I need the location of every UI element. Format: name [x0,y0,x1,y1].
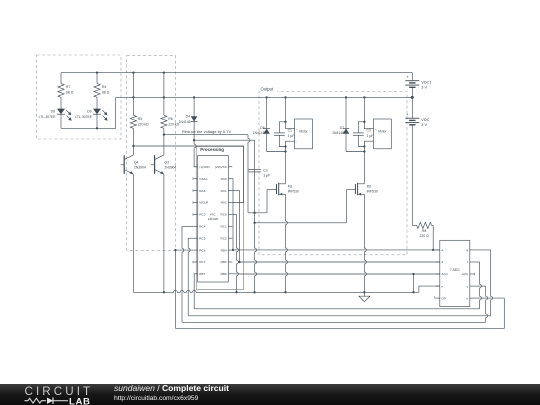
LED D9 [93,109,101,115]
pin tick: 7seg DP [434,296,436,298]
wire: VDC1 to junction [411,87,413,97]
wire: loop f (RB7 to pin f) [194,308,479,310]
svg-text:M2: M2 [367,184,372,188]
svg-text:A(C): A(C) [462,272,468,276]
junction: motor1 bottom node [284,145,286,147]
battery VDC (3V) [405,117,419,119]
diode D7 (1N4148) [345,97,347,128]
svg-text:RB4: RB4 [221,248,227,252]
annotation box: sensor group (dashed) [127,55,176,250]
wire: M2 source to ground rail [364,194,366,292]
svg-text:e: e [441,284,443,288]
wire: RC0 south to ground [232,213,236,215]
wire: loop b (RC6 to pin b) [175,298,504,328]
wire: rail1 to R5 [132,73,134,116]
display DS1 (7-SEG) [440,240,470,306]
svg-text:C2: C2 [367,128,371,132]
wire: LED box riser [115,97,117,128]
svg-text:C3: C3 [263,168,267,172]
junction: rail1/R5 [132,71,134,73]
motor MOT1 [295,119,313,149]
svg-text:IRF530: IRF530 [288,190,299,194]
svg-text:D7: D7 [340,126,344,130]
wire: motor1 bottom pin [286,141,295,146]
wire: motor1 feed [285,97,287,128]
pin tick: MCLR [192,201,194,203]
svg-text:RB5: RB5 [221,260,227,264]
wire h3: R5 node to RA2 [133,145,243,147]
svg-text:RA2: RA2 [221,201,227,205]
svg-text:+: + [296,128,298,131]
svg-text:C1: C1 [288,128,292,132]
svg-text:RA4: RA4 [199,189,205,193]
wire: RB7 loop west [193,274,196,309]
junction: battery mid node [411,96,414,99]
svg-text:Q3: Q3 [164,160,169,164]
svg-text:D9: D9 [87,109,91,113]
svg-text:PIC: PIC [210,213,216,217]
svg-text:RB6: RB6 [221,272,227,276]
svg-text:+: + [406,112,409,117]
capacitor C3 [248,169,261,171]
capacitor C2 [358,122,364,133]
svg-text:+: + [375,128,377,131]
wire: ground rail [134,290,419,292]
svg-text:R5: R5 [138,117,142,121]
resistor R6 [161,115,167,128]
svg-text:c: c [467,284,469,288]
svg-text:3 V: 3 V [421,123,427,127]
resistor R7 [60,73,62,84]
svg-text:16F690: 16F690 [208,217,219,221]
wire: R8 to display [432,225,434,250]
wire: LED bottom [61,127,116,129]
svg-text:220 kΩ: 220 kΩ [138,122,149,126]
junction: wireB/M1 gate link [253,212,255,214]
svg-text:RA1: RA1 [221,189,227,193]
junction: RA0/segment-a rail [232,249,234,251]
svg-text:RC4: RC4 [199,225,205,229]
svg-text:RC7: RC7 [199,260,205,264]
pin tick: RA4 [192,189,194,191]
junction: M1 source/ground [284,291,286,293]
wire: motor2 node to drain [363,147,365,184]
svg-text:Processing: Processing [200,147,224,152]
junction: rail2/D7 [345,96,347,98]
svg-text:1N4148: 1N4148 [253,131,265,135]
svg-text:R6: R6 [168,117,172,121]
wire: M2 gate link [255,222,347,224]
wire: junction to VDC [411,97,413,118]
svg-text:d: d [441,260,443,264]
junction: rail2/motor1 [284,96,286,98]
footer logo CIRCUIT LAB [0,384,540,405]
svg-text:Reduce the voltage by 0.7V: Reduce the voltage by 0.7V [182,129,231,134]
junction: R5 bottom node [132,145,134,147]
svg-text:D4: D4 [186,115,190,119]
wire: rail1 to VDC1 [411,73,413,81]
svg-text:68 Ω: 68 Ω [66,90,74,94]
junction: D7/motor2 drain node [363,150,365,152]
wire: rail 2 [116,96,413,98]
svg-text:-: - [375,141,376,144]
junction: anode/ground rail [412,291,414,293]
svg-text:68 Ω: 68 Ω [102,90,110,94]
svg-text:RC5: RC5 [199,236,205,240]
svg-text:f: f [467,260,468,264]
junction: R8/segment-a rail [432,249,434,251]
wire: motor1 node to drain [285,147,287,184]
wire: segment-d rail [238,261,440,263]
junction: D4 node [193,139,195,141]
junction: RC6 corner [174,249,176,251]
wire: motor2 feed [363,97,365,128]
mosfet M1 (IRF530) [278,183,280,195]
svg-text:1 μF: 1 μF [288,134,295,138]
annotation box: LED group (dashed) [37,55,122,139]
svg-text:-: - [296,141,297,144]
junction: RC0 wire/ground [235,291,237,293]
transistor Q4 (2N3904) [132,146,134,155]
junction: Q3 emitter/ground [163,291,165,293]
svg-text:VDC: VDC [421,118,429,122]
wire: RA1 south [232,191,239,262]
svg-text:M1: M1 [288,184,293,188]
svg-text:R7: R7 [66,85,70,89]
svg-text:LTL-307EE: LTL-307EE [39,115,57,119]
svg-text:b: b [466,296,468,300]
wire: M1 gate link [248,212,267,214]
svg-text:IRF530: IRF530 [367,190,378,194]
svg-text:RC3: RC3 [199,213,205,217]
ground symbol [363,292,365,296]
svg-text:(1)VDD: (1)VDD [199,165,210,169]
junction: rail2/D4 [193,96,195,98]
annotation box: Processing group [196,146,243,289]
svg-text:D8: D8 [260,126,264,130]
wire: Q4 emitter rail corner [132,291,135,293]
wire: loop g (RC5 to pin g) [188,315,491,317]
svg-text:DP: DP [441,296,445,300]
svg-text:OSC1: OSC1 [199,177,208,181]
wire: loop c (RC4 to pin c) [182,321,486,323]
junction: motor2 top node [363,121,365,123]
wire h1: R6 node to C3 (wire A) [164,134,248,136]
svg-text:A(C): A(C) [441,272,447,276]
wire h2: D4 node east (wire B) [194,139,255,141]
svg-text:a: a [441,248,443,252]
pin tick: RC3 [192,213,194,215]
svg-text:MCLR: MCLR [199,201,209,205]
svg-text:Motor: Motor [378,129,387,133]
svg-text:Motor: Motor [299,129,308,133]
junction: motor1 top node [284,121,286,123]
diode D8 (1N4148) [266,97,268,128]
wire: anode rail start [232,273,243,275]
svg-text:sundaiwen / Complete circuit: sundaiwen / Complete circuit [114,383,229,393]
battery VDC1 (3V) [405,80,419,82]
svg-text:2N3904: 2N3904 [164,165,176,169]
svg-text:1 μF: 1 μF [263,174,270,178]
junction: D8/motor1 drain node [284,150,286,152]
footer attribution text [114,383,229,402]
microcontroller U1 (PIC 16F690) [198,156,229,283]
junction: rail2/motor2 [363,96,365,98]
junction: wireB/M2 gate link [253,222,255,224]
motor MOT2 [374,119,392,149]
svg-text:RA0: RA0 [221,177,227,181]
svg-text:1N4148: 1N4148 [179,120,191,124]
wire A vertical [248,135,250,213]
wire: RC4 loop west [182,225,194,227]
junction: LED bottom / D9 [96,127,98,129]
wire: segment-a rail [233,249,440,251]
pin tick: OSC1 [192,178,194,180]
svg-text:Q4: Q4 [134,160,139,164]
wire: RA0 south [231,179,234,250]
svg-text:220 Ω: 220 Ω [420,234,430,238]
svg-text:RC1: RC1 [220,225,226,229]
capacitor C1 [279,122,285,133]
svg-text:2N3904: 2N3904 [134,165,146,169]
junction: rail1/R6 [163,71,165,73]
wire: anode to ground [413,274,415,292]
junction: RA1/segment-d rail [238,261,240,263]
resistor R5 [130,115,136,128]
svg-text:3 V: 3 V [421,86,427,90]
svg-text:R8: R8 [422,229,426,233]
svg-text:(20)VSS: (20)VSS [215,165,227,169]
junction: R6 bottom node [163,133,165,135]
junction: rail1 / R4 [96,71,98,73]
svg-text:1N4148: 1N4148 [332,131,344,135]
pin tick: 7seg A(C) right [474,273,476,275]
wire: motor2 bottom pin [364,141,373,146]
wire: anode rail [243,273,440,275]
resistor R8 (220 ohm) [417,222,432,228]
svg-text:1 μF: 1 μF [367,134,374,138]
svg-text:Output: Output [261,86,274,91]
svg-text:LAB: LAB [69,396,91,405]
svg-text:7-SEG: 7-SEG [450,268,460,272]
wire: VDC to R8 [411,125,413,226]
junction: rail2/R6 [163,96,165,98]
svg-text:D6: D6 [51,109,55,113]
svg-text:VDC1: VDC1 [421,80,431,84]
junction: rail2/R5 [132,96,134,98]
svg-text:RC0: RC0 [220,213,226,217]
svg-text:http://circuitlab.com/cx6x959: http://circuitlab.com/cx6x959 [114,395,199,402]
diode D4 (1N4148) [193,97,195,121]
mosfet M2 (IRF530) [357,183,359,195]
wire: VCC rail 1 (top) [61,72,412,74]
svg-text:g: g [466,248,468,252]
LED D6 [57,109,65,115]
svg-text:+: + [406,75,409,80]
svg-text:RC2: RC2 [220,236,226,240]
svg-text:RB7: RB7 [199,272,205,276]
annotation box: Output group (dashed) [259,92,407,255]
svg-text:RC6: RC6 [199,248,205,252]
wire: RC6 loop west [175,249,193,251]
junction: anode rail tap [412,273,414,275]
svg-text:LTL-307EE: LTL-307EE [75,115,93,119]
wire: rail1 to R6 [163,73,165,116]
junction: wireB/ground rail [253,291,255,293]
junction: rail2/D8 [265,96,267,98]
junction: M2 source/ground [363,291,365,293]
wire: RC5 loop west [188,237,194,239]
wire B vertical [255,140,257,292]
resistor R4 [96,73,98,84]
wire: M1 source to ground rail [286,194,288,292]
junction: motor2 bottom node [363,145,365,147]
pin tick: RC7 [192,261,194,263]
svg-text:R4: R4 [102,85,106,89]
transistor Q3 (2N3904) [163,135,165,155]
